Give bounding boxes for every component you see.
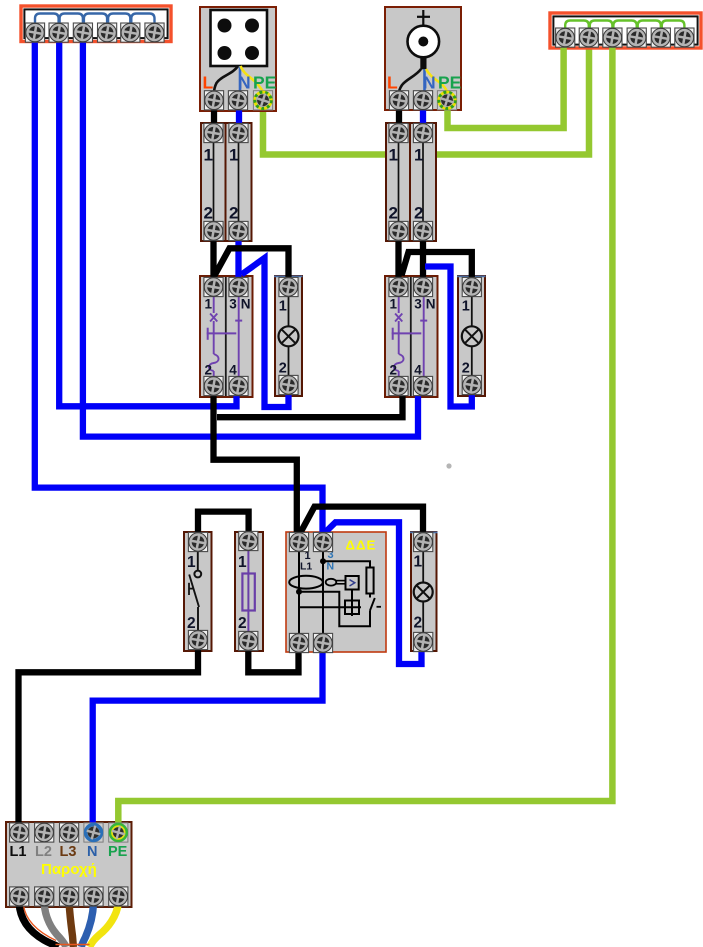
Q1 pin2 — [289, 633, 308, 652]
svg-text:Παροχή: Παροχή — [41, 861, 97, 878]
switch S pole B box — [226, 123, 252, 241]
strip X2 screw 1 — [556, 28, 575, 47]
K1 pin1 — [204, 277, 223, 296]
RCD internal pole L1 — [298, 551, 300, 634]
svg-text:1: 1 — [238, 554, 247, 571]
relay K1 (stove thermal limiter) — [200, 276, 253, 397]
wire heater internal PE (yellow) — [426, 69, 447, 92]
H2 pin2 — [462, 375, 481, 394]
strip X1 screw 4 — [98, 23, 117, 42]
S1 pin2 pole A — [204, 221, 223, 240]
switch S pole A box — [201, 123, 226, 241]
S1 pin1 pole B — [229, 123, 248, 142]
S1 pin1 pole A — [204, 123, 223, 142]
terminal block X3: supply Παροχή — [6, 822, 132, 907]
svg-text:1: 1 — [414, 146, 423, 165]
appliance E1: electric stove — [200, 7, 276, 111]
wire supply cable L3 (brown) — [69, 903, 73, 947]
node junction on L1 — [296, 589, 302, 595]
strip X1 screw 6 — [145, 23, 164, 42]
wire black: RCD pin1 branch to lamp H3 pin1 — [301, 507, 424, 537]
svg-text:2: 2 — [187, 615, 196, 632]
strip X1 screw 1 — [25, 23, 44, 42]
wire blue: RCD N input to supply N — [93, 648, 323, 826]
wire black: relay K2 pin2 to bus tee — [217, 395, 403, 417]
svg-text:3: 3 — [229, 297, 237, 312]
H3 pin1 — [414, 532, 433, 551]
lamp H2 (heater indicator) — [457, 276, 486, 396]
wire resistor to test button — [369, 594, 371, 598]
stove terminal PE — [253, 91, 272, 110]
svg-text:PE: PE — [108, 844, 128, 860]
wire test loop return — [300, 592, 370, 627]
svg-text:4: 4 — [229, 363, 237, 378]
svg-text:2: 2 — [414, 615, 423, 632]
terminal strip X2 (top-right, PE bus) — [550, 13, 701, 48]
wire green: heater PE to strip X2 screw1 — [448, 34, 564, 128]
relay K2 (heater thermal limiter) — [385, 276, 438, 397]
svg-text:2: 2 — [238, 615, 247, 632]
X3 top screw L2 — [35, 823, 54, 842]
svg-text:ΔΔΕ: ΔΔΕ — [346, 538, 377, 553]
lamp H3 (power-on indicator) — [410, 532, 438, 651]
RCD Q1 (residual current device ΔΔΕ) — [286, 532, 386, 652]
wire black: S1 pole A to relay K1 pin1 — [210, 240, 216, 277]
strip X2 screw 5 — [651, 28, 670, 47]
H1 pin1 — [279, 277, 298, 296]
heater terminal N — [413, 91, 432, 110]
S2 pin2 pole B — [413, 221, 432, 240]
wire blue: stove N to switch S1 — [236, 98, 242, 124]
stove terminal N — [228, 91, 247, 110]
svg-text:2: 2 — [390, 363, 398, 378]
svg-text:L1: L1 — [300, 561, 312, 573]
wire black: switch S3 bottom to supply L1 — [19, 647, 199, 826]
trip amplifier box — [346, 576, 359, 590]
wire supply cable L1 (black) — [19, 903, 58, 947]
strip X2 screw 6 — [675, 28, 694, 47]
svg-text:L3: L3 — [60, 844, 77, 860]
wire stove internal L (black) — [214, 66, 238, 93]
test button contact — [370, 598, 381, 611]
strip X1 screw 3 — [73, 23, 92, 42]
wire black: relay K2 pin1 branch to lamp H2 pin1 — [402, 252, 472, 282]
wire jumper loops (green) on strip X2 — [565, 21, 684, 32]
svg-text:2: 2 — [389, 204, 398, 223]
wire black: relay K1 pin1 branch to lamp H1 pin1 — [214, 248, 289, 282]
svg-text:N: N — [426, 297, 436, 312]
strip X1 screw 2 — [49, 23, 68, 42]
relay internal contact pole 1-2 (purple) — [392, 296, 422, 378]
cable sheath mark (thin orange) — [24, 905, 90, 945]
wire test branch from N — [323, 561, 370, 568]
RCD toroid core — [289, 576, 323, 589]
X3 bottom screw L3 — [60, 887, 79, 906]
RCD sense coil — [326, 579, 337, 586]
K2 pin4 — [413, 376, 432, 395]
wire coil to trip amplifier — [336, 581, 346, 584]
S3 pin1 — [188, 532, 207, 551]
wire blue: strip X1 screw3 to relay K2 pin4 — [83, 40, 418, 437]
F1 pin1 — [239, 531, 258, 550]
trip coil (crossed square) — [299, 599, 361, 617]
svg-text:L2: L2 — [35, 844, 52, 860]
wire stove internal N (blue) — [239, 66, 242, 93]
Q1 pin3 — [313, 532, 332, 551]
terminal strip X1 (top-left, neutral bus) — [21, 6, 171, 42]
switch S pole B box — [410, 123, 436, 241]
X3 bottom screw L2 — [35, 887, 54, 906]
K1 pin4 — [229, 376, 248, 395]
F1 pin2 — [239, 631, 258, 650]
wire supply cable N (blue) — [81, 903, 93, 947]
wire PE green: stove PE to right strip screw2 (passes behind right switch) — [263, 34, 589, 155]
svg-text:2: 2 — [229, 204, 238, 223]
svg-text:1: 1 — [187, 554, 196, 571]
svg-text:4: 4 — [414, 363, 422, 378]
Q1 pin1 — [289, 532, 308, 551]
wire stove internal PE (yellow) — [241, 66, 264, 92]
lamp H1 (stove indicator) — [274, 276, 303, 396]
X3 top screw N (blue ring) — [84, 823, 103, 842]
K2 pin1 — [389, 277, 408, 296]
svg-text:PE: PE — [253, 73, 276, 93]
wire black: relay K1 pin2 down to RCD pin1 — [214, 395, 297, 536]
Q1 pin4 — [313, 633, 332, 652]
wire blue: S1 pole B to relay K1 pin3N — [235, 240, 241, 277]
svg-text:1: 1 — [389, 146, 398, 165]
RCD internal pole N — [322, 551, 324, 634]
X3 bottom screw N — [84, 887, 103, 906]
K2 pin3N — [413, 277, 432, 296]
svg-text:1: 1 — [279, 299, 287, 315]
wire black: stove L to switch S1 — [211, 98, 217, 124]
wire black: S2 pole B to relay K2 pin3N — [420, 240, 426, 277]
X3 top screw L3 — [60, 823, 79, 842]
stove terminal L — [204, 91, 223, 110]
X3 bottom screw L1 — [10, 887, 29, 906]
switch S3 (main control switch) — [184, 532, 212, 651]
H3 pin2 — [414, 632, 433, 651]
wire black: switch S3 top jumper to fuse F1 top — [198, 512, 249, 537]
svg-text:2: 2 — [279, 361, 287, 377]
svg-text:1: 1 — [462, 299, 470, 315]
relay internal neutral pole 3N-4 (purple) — [235, 296, 242, 378]
K1 pin3N — [229, 277, 248, 296]
H2 pin1 — [462, 277, 481, 296]
wire jumper loops (blue) on strip X1 — [35, 14, 155, 25]
wire blue: heater N to switch S2 — [420, 98, 426, 124]
svg-text:1: 1 — [229, 146, 238, 165]
stray dot — [446, 463, 451, 468]
svg-text:L1: L1 — [10, 844, 27, 860]
X3 top screw PE (green ring) — [109, 823, 128, 842]
wire blue: relay K2 pin3N up-over to lamp H2 pin2 — [425, 267, 472, 407]
S3 pin2 — [188, 630, 207, 649]
svg-text:1: 1 — [205, 297, 213, 312]
strip X2 screw 2 — [579, 28, 598, 47]
wire black: fuse F1 bottom to RCD input — [248, 647, 298, 672]
svg-text:L: L — [203, 73, 214, 93]
wire supply cable L2 (grey) — [44, 903, 66, 947]
wire black: heater L to switch S2 — [396, 98, 402, 124]
svg-text:2: 2 — [204, 204, 213, 223]
wire amplifier to trip coil — [351, 590, 353, 601]
svg-text:PE: PE — [438, 73, 461, 93]
fuse F1 — [235, 532, 263, 651]
svg-text:1: 1 — [390, 297, 398, 312]
wire heater internal L (black) — [399, 69, 421, 93]
svg-text:3: 3 — [414, 297, 422, 312]
heater terminal PE — [437, 91, 456, 110]
S2 pin1 pole B — [413, 123, 432, 142]
test resistor — [366, 568, 373, 594]
strip X2 screw 4 — [627, 28, 646, 47]
svg-text:L: L — [387, 73, 398, 93]
H1 pin2 — [279, 375, 298, 394]
wire black: S2 pole A to relay K2 pin1 — [395, 240, 401, 277]
relay internal contact pole 1-2 (purple) — [207, 296, 237, 378]
svg-text:1: 1 — [414, 554, 423, 571]
S1 pin2 pole B — [229, 221, 248, 240]
svg-text:N: N — [423, 73, 436, 93]
K1 pin2 — [204, 376, 223, 395]
svg-text:2: 2 — [205, 363, 213, 378]
S2 pin2 pole A — [389, 221, 408, 240]
heater terminal L — [389, 91, 408, 110]
svg-text:1: 1 — [204, 146, 213, 165]
wire heater internal N (blue) — [423, 69, 426, 93]
appliance E2: water heater — [385, 7, 461, 110]
strip X2 screw 3 — [603, 28, 622, 47]
wire supply cable PE (yellow) — [90, 903, 119, 947]
relay internal neutral pole 3N-4 (purple) — [420, 296, 427, 378]
svg-text:N: N — [241, 297, 251, 312]
node junction on N — [320, 558, 326, 564]
wire green: strip X2 screw3 down to supply PE — [118, 40, 612, 828]
X3 bottom screw PE — [109, 887, 128, 906]
wire blue: relay K1 pin3N up-over to lamp H1 pin2 — [242, 258, 289, 407]
svg-text:2: 2 — [462, 361, 470, 377]
S2 pin1 pole A — [389, 123, 408, 142]
switch S pole A box — [386, 123, 411, 241]
wire blue: strip X1 screw1 to RCD pin3 — [35, 40, 323, 537]
svg-text:N: N — [238, 73, 251, 93]
wire blue: RCD pin3 branch to lamp H3 pin2 — [324, 522, 422, 664]
strip X1 screw 5 — [121, 23, 140, 42]
wire blue: strip X1 screw2 to relay K1 pin4 — [59, 40, 236, 406]
svg-text:2: 2 — [414, 204, 423, 223]
K2 pin2 — [389, 376, 408, 395]
svg-text:N: N — [327, 561, 335, 573]
X3 top screw L1 — [10, 823, 29, 842]
svg-text:N: N — [87, 844, 97, 860]
